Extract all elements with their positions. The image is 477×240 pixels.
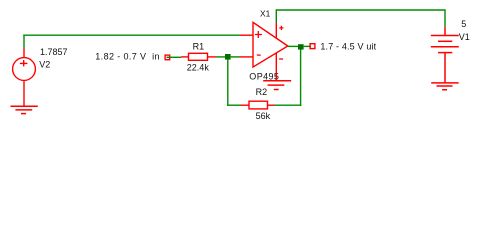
- ground under op-amp: [263, 81, 291, 90]
- svg-text:1.7857: 1.7857: [40, 47, 68, 57]
- op-amp U1 inverting input lead: [240, 56, 253, 58]
- svg-text:1.7 - 4.5 V uit: 1.7 - 4.5 V uit: [320, 41, 376, 51]
- op-amp V- supply pin: [275, 53, 277, 80]
- wire top rail: [276, 9, 445, 11]
- wire R1 to junction: [216, 56, 226, 58]
- op-amp supply minus mark: [279, 58, 283, 60]
- svg-text:R2: R2: [256, 87, 268, 97]
- wire junction to inverting lead: [231, 56, 240, 58]
- svg-text:R1: R1: [193, 41, 205, 51]
- wire output junction to port: [304, 45, 311, 47]
- ground under V1: [431, 83, 459, 90]
- svg-text:X1: X1: [260, 8, 271, 18]
- op-amp U1 triangle: [253, 22, 288, 67]
- port uit (red square): [310, 44, 315, 49]
- wire feedback horizontal right: [275, 104, 302, 106]
- node junction R1/R2/inverting input: [225, 54, 231, 60]
- wire V2 vertical green: [23, 35, 25, 49]
- svg-text:56k: 56k: [256, 111, 271, 121]
- ground under V2: [11, 106, 38, 113]
- svg-text:22.4k: 22.4k: [187, 63, 210, 73]
- resistor R2: [241, 101, 275, 109]
- svg-text:5: 5: [461, 19, 466, 29]
- op-amp supply plus mark: [279, 26, 283, 30]
- op-amp plus input mark: [255, 31, 262, 38]
- wire op-amp output: [288, 45, 299, 47]
- op-amp V+ supply pin: [275, 23, 277, 38]
- wire battery drop: [444, 9, 446, 27]
- svg-text:1.82 - 0.7 V in: 1.82 - 0.7 V in: [95, 51, 160, 61]
- svg-text:V2: V2: [39, 60, 50, 70]
- wire supply drop from top rail: [275, 9, 277, 22]
- wire feedback vertical left: [227, 59, 229, 106]
- wire feedback vertical right: [300, 49, 302, 106]
- port in (red square): [165, 55, 170, 60]
- wire V2 to op-amp noninverting input: [23, 34, 240, 36]
- resistor R1: [181, 53, 216, 60]
- op-amp minus input mark: [257, 54, 261, 56]
- node output junction: [298, 44, 304, 49]
- voltage source V2: [13, 48, 36, 106]
- op-amp U1 noninverting input lead: [240, 34, 253, 36]
- battery V1: [431, 27, 459, 83]
- svg-text:V1: V1: [459, 32, 470, 42]
- wire feedback horizontal left: [227, 104, 240, 106]
- wire port-in to R1: [167, 56, 182, 58]
